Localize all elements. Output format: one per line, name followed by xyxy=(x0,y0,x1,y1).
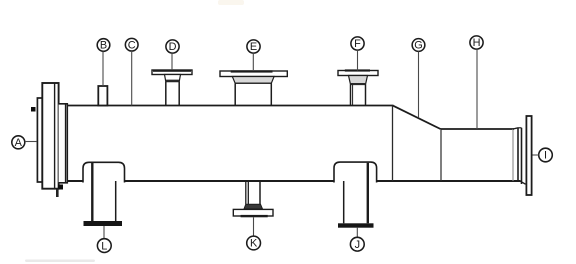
svg-text:L: L xyxy=(101,240,107,252)
svg-text:B: B xyxy=(100,40,107,52)
leader K xyxy=(253,217,255,236)
balloon L xyxy=(97,239,111,253)
balloon H xyxy=(470,36,483,49)
head drain pin xyxy=(56,189,59,197)
right end hub bottom diagonal xyxy=(521,181,526,184)
svg-text:I: I xyxy=(544,150,547,162)
balloon C xyxy=(125,38,138,51)
head bolt tab top-left xyxy=(31,107,36,112)
svg-text:G: G xyxy=(414,40,422,52)
balloon B xyxy=(97,39,110,52)
leader F xyxy=(357,50,359,70)
svg-text:J: J xyxy=(355,239,360,251)
wire: shell top line xyxy=(59,105,394,107)
boot nozzle L bottom flange xyxy=(84,221,123,226)
balloon K xyxy=(247,236,261,250)
wire: cone top slope xyxy=(393,106,440,129)
nozzle D neck xyxy=(165,82,167,106)
balloon D xyxy=(166,40,179,53)
leader L xyxy=(103,226,105,239)
wire: cone-to-cylinder seam xyxy=(440,129,442,181)
balloon F xyxy=(351,37,364,50)
nozzle K hub (dark) xyxy=(244,204,263,209)
svg-text:A: A xyxy=(15,137,23,149)
right end cylinder seam (faint) xyxy=(512,129,514,181)
nozzle D hub weld band xyxy=(166,80,179,82)
smudge top xyxy=(218,0,244,5)
boot nozzle L pipe line (thick) xyxy=(91,163,93,222)
nozzle E flange top bar xyxy=(231,70,273,72)
head flange column xyxy=(42,83,58,189)
right end flange xyxy=(526,116,531,195)
leader G xyxy=(418,51,420,117)
leader B xyxy=(102,51,104,86)
nozzle F hub weld band xyxy=(351,83,366,85)
nozzle E neck xyxy=(234,83,236,105)
nozzle D hub xyxy=(165,75,181,82)
shell end ring xyxy=(59,104,68,183)
right end hub line 2 xyxy=(521,128,523,184)
right end hub taper top xyxy=(513,128,518,129)
nozzle F neck xyxy=(350,85,352,106)
balloon J xyxy=(350,237,364,251)
svg-text:H: H xyxy=(473,37,481,49)
nozzle F hub xyxy=(349,76,368,85)
nozzle E flange xyxy=(220,71,287,77)
right end hub top connector xyxy=(518,127,522,129)
balloon I xyxy=(539,148,553,162)
svg-text:F: F xyxy=(354,38,361,50)
right end hub line 1 xyxy=(517,128,519,181)
boot nozzle J neck left edge xyxy=(343,181,345,223)
leader I xyxy=(533,154,539,156)
balloon E xyxy=(247,40,260,53)
nozzle E hub xyxy=(232,77,274,84)
nozzle D flange top bar xyxy=(153,70,191,72)
balloon A xyxy=(12,136,25,149)
nozzle B neck xyxy=(98,86,107,106)
smudge bottom-left xyxy=(25,260,95,263)
nozzle K flange xyxy=(233,209,273,216)
leader E xyxy=(252,53,254,71)
nozzle F flange top bar xyxy=(345,69,370,71)
boot nozzle J pipe line (thick) xyxy=(367,163,369,224)
boot nozzle L neck right edge xyxy=(115,181,117,222)
wire: shell-to-cone seam xyxy=(392,106,394,182)
leader A xyxy=(25,141,37,143)
shell end ring inner line xyxy=(65,104,67,183)
head bolt tab bottom xyxy=(58,185,63,190)
wire: small cylinder top line xyxy=(441,128,515,130)
svg-text:E: E xyxy=(250,41,257,53)
wire: shell bottom line xyxy=(59,180,521,182)
boot nozzle J pad xyxy=(334,162,377,182)
boot nozzle L pad xyxy=(83,162,125,182)
svg-text:C: C xyxy=(128,39,136,51)
svg-text:D: D xyxy=(169,41,177,53)
leader C xyxy=(131,51,133,106)
nozzle E hub weld band xyxy=(235,83,271,84)
nozzle D flange xyxy=(152,70,192,75)
head cover plate xyxy=(37,98,42,182)
leader D xyxy=(171,53,173,70)
svg-text:K: K xyxy=(250,238,258,250)
balloon G xyxy=(412,39,425,52)
boot nozzle J bottom flange xyxy=(338,223,374,227)
head flange inner line xyxy=(54,83,56,189)
nozzle K neck xyxy=(245,181,247,204)
nozzle K flange bottom bar xyxy=(241,215,268,217)
leader J xyxy=(356,228,358,238)
nozzle F flange xyxy=(338,71,378,76)
leader H xyxy=(476,49,478,129)
